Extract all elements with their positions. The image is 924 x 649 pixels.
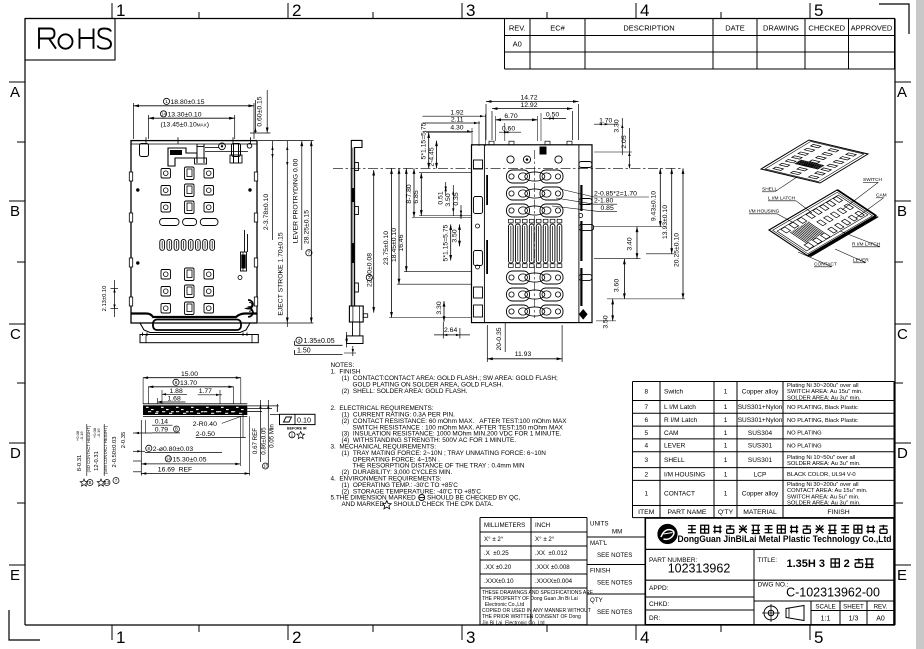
- dim 2-3.78: [272, 141, 274, 240]
- svg-text:.XXX ±0.008: .XXX ±0.008: [535, 564, 570, 571]
- units column: [587, 536, 645, 538]
- top view side notches: [129, 172, 132, 181]
- svg-text:5*1.15=5.75: 5*1.15=5.75: [443, 224, 450, 261]
- dim 6.85: [420, 173, 422, 216]
- bottom view outline: [472, 145, 593, 323]
- svg-text:(2) SHELL: SOLDER AREA: GOLD: (2) SHELL: SOLDER AREA: GOLD FLASH.: [342, 388, 468, 395]
- svg-text:9.43±0.10: 9.43±0.10: [651, 191, 658, 221]
- svg-text:12.92: 12.92: [520, 102, 537, 109]
- svg-text:DWG NO.:: DWG NO.:: [758, 582, 789, 589]
- zone numbers bottom: [111, 625, 113, 640]
- top view right latch bars: [233, 143, 235, 163]
- svg-text:SCALE: SCALE: [815, 604, 835, 611]
- top view legs and base flange: [142, 333, 144, 336]
- svg-text:5: 5: [814, 628, 823, 647]
- svg-text:2-0.85*2=1.70: 2-0.85*2=1.70: [594, 191, 637, 198]
- svg-text:0.67 REF: 0.67 REF: [252, 428, 259, 454]
- bottom view left rail features: [474, 160, 483, 169]
- dim 18.45: [398, 168, 400, 284]
- svg-text:D: D: [897, 445, 908, 462]
- dim 2-4.45: [436, 141, 438, 169]
- svg-text:2-4.45: 2-4.45: [428, 147, 435, 166]
- svg-text:SEE NOTES: SEE NOTES: [597, 552, 632, 559]
- svg-text:Plating Ni 10~50u" over all: Plating Ni 10~50u" over all: [787, 455, 855, 461]
- svg-text:20.25±0.10: 20.25±0.10: [673, 233, 680, 267]
- svg-text:1.50: 1.50: [297, 348, 311, 355]
- parts list table: [633, 381, 895, 383]
- svg-text:2-0.50±0.03: 2-0.50±0.03: [112, 437, 118, 468]
- top view circle feature: [219, 143, 226, 150]
- svg-text:EJECT STROKE 1.70±0.15: EJECT STROKE 1.70±0.15: [278, 232, 285, 316]
- dim 16.46: [405, 168, 407, 271]
- svg-text:3.50: 3.50: [602, 315, 609, 328]
- svg-text:2.13±0.10: 2.13±0.10: [102, 286, 108, 312]
- svg-text:4: 4: [640, 628, 649, 647]
- scale sheet rev: [810, 601, 812, 625]
- svg-text:13.30±0.10: 13.30±0.10: [168, 112, 202, 119]
- svg-text:SEE NOTES: SEE NOTES: [597, 580, 632, 587]
- svg-text:4: 4: [640, 1, 649, 20]
- iso assembly view: [769, 190, 878, 257]
- svg-text:REV.: REV.: [509, 24, 526, 33]
- svg-text:13.70: 13.70: [180, 380, 197, 387]
- svg-text:SOLDER AREA: Au 3u" min.: SOLDER AREA: Au 3u" min.: [787, 395, 861, 401]
- dim 5*1.15 lower: [450, 224, 452, 260]
- svg-text:1: 1: [724, 430, 728, 437]
- svg-text:LEVER: LEVER: [664, 443, 686, 450]
- dim 0.51 3.50 0.35: [445, 182, 447, 196]
- svg-text:8: 8: [644, 388, 648, 395]
- svg-text:3: 3: [298, 338, 301, 343]
- svg-text:3: 3: [466, 628, 475, 647]
- svg-text:CHKD:: CHKD:: [649, 601, 669, 608]
- centerline: [333, 167, 683, 169]
- svg-text:1: 1: [724, 388, 728, 395]
- svg-text:3: 3: [466, 1, 475, 20]
- top view eject hook bottom right: [247, 300, 253, 317]
- svg-text:Q'TY: Q'TY: [718, 509, 734, 516]
- dim 9.43: [659, 168, 661, 226]
- svg-text:MILLIMETERS: MILLIMETERS: [484, 522, 525, 529]
- svg-text:SUS301+Nylon: SUS301+Nylon: [738, 404, 783, 411]
- svg-text:3.50: 3.50: [445, 193, 452, 206]
- dim 14.72: [485, 104, 487, 140]
- bottom view center line vertical: [534, 150, 536, 318]
- dim 5*1.15=5.75 upper: [428, 132, 430, 168]
- dim 13.30: [147, 115, 149, 139]
- svg-text:5: 5: [644, 430, 648, 437]
- svg-text:PART NAME: PART NAME: [668, 509, 707, 516]
- svg-text:13.93±0.10: 13.93±0.10: [662, 205, 669, 239]
- appd chkd dr rows: [645, 596, 754, 598]
- svg-text:CONTACT: CONTACT: [664, 490, 695, 497]
- svg-text:7: 7: [644, 404, 648, 411]
- svg-text:NO PLATING, Black Plastic: NO PLATING, Black Plastic: [787, 405, 858, 411]
- svg-text:MATERIAL: MATERIAL: [743, 509, 777, 516]
- svg-text:L I/M Latch: L I/M Latch: [664, 404, 696, 411]
- dim 13.70: [173, 379, 179, 385]
- svg-text:A0: A0: [513, 40, 522, 49]
- svg-text:1:1: 1:1: [821, 616, 831, 623]
- svg-text:EC#: EC#: [550, 24, 565, 33]
- svg-text:23.75±0.10: 23.75±0.10: [383, 231, 390, 265]
- section view band: [143, 405, 247, 415]
- svg-text:FINISH: FINISH: [590, 568, 610, 575]
- svg-text:B: B: [175, 427, 178, 432]
- svg-text:2-ø0.80±0.03: 2-ø0.80±0.03: [153, 446, 194, 453]
- top view contact grid upper: [161, 169, 171, 179]
- svg-text:.XXXX±0.004: .XXXX±0.004: [535, 578, 573, 585]
- dim eject stroke: [286, 141, 288, 327]
- svg-text:3.60: 3.60: [614, 279, 621, 292]
- svg-text:1: 1: [724, 417, 728, 424]
- section view right tail: [247, 405, 278, 407]
- svg-text:SUS301: SUS301: [748, 457, 773, 464]
- svg-text:16.46: 16.46: [398, 234, 405, 251]
- dim 3.40: [636, 227, 638, 259]
- svg-text:15.00: 15.00: [181, 371, 198, 378]
- svg-text:2.11: 2.11: [451, 116, 464, 123]
- svg-text:NO PLATING, Black Plastic: NO PLATING, Black Plastic: [787, 418, 858, 424]
- top view eject lever right: [241, 252, 247, 271]
- dim 1.35 bottom: [296, 337, 302, 343]
- svg-text:2.64: 2.64: [444, 327, 457, 334]
- svg-text:1.35H 3: 1.35H 3: [787, 558, 826, 570]
- bottom view diamond mark: [579, 309, 588, 320]
- svg-text:1/3: 1/3: [849, 616, 859, 623]
- svg-text:A0: A0: [876, 616, 885, 623]
- top view latch pockets top corners: [140, 144, 149, 157]
- svg-text:SOLDER AREA: Au 3u" min.: SOLDER AREA: Au 3u" min.: [787, 500, 861, 506]
- projection symbol box: [754, 600, 894, 602]
- note symbol star: [382, 501, 391, 509]
- side view right bumps: [355, 163, 359, 171]
- svg-text:Plating Ni 30~200u" over all: Plating Ni 30~200u" over all: [787, 383, 859, 389]
- svg-text:2-3.78±0.10: 2-3.78±0.10: [263, 194, 270, 230]
- svg-text:13: 13: [105, 480, 110, 485]
- svg-text:1: 1: [724, 404, 728, 411]
- svg-text:Copper alloy: Copper alloy: [742, 490, 779, 497]
- dim 18.80: [133, 103, 135, 139]
- witness lines left: [412, 216, 472, 218]
- top view pin: [196, 144, 198, 163]
- company name chinese (pseudo glyphs): [688, 525, 696, 534]
- svg-text:REV.: REV.: [874, 604, 888, 611]
- svg-text:C: C: [897, 326, 908, 343]
- svg-text:11.93: 11.93: [515, 351, 532, 358]
- dim 20.25: [682, 168, 684, 299]
- svg-text:B: B: [89, 480, 92, 485]
- RoHS box: [25, 19, 115, 61]
- bottom view top circles: [507, 156, 514, 163]
- svg-text:1: 1: [165, 99, 168, 104]
- svg-text:14: 14: [166, 456, 172, 461]
- dim 13.93: [671, 168, 673, 253]
- svg-text:18.80±0.15: 18.80±0.15: [171, 99, 205, 106]
- svg-text:2: 2: [644, 471, 648, 478]
- svg-text:SHELL: SHELL: [664, 457, 685, 464]
- svg-text:8: 8: [175, 380, 178, 385]
- svg-text:DATE: DATE: [725, 24, 744, 33]
- svg-text:0.79: 0.79: [155, 426, 168, 433]
- svg-text:2: 2: [292, 1, 301, 20]
- svg-text:7: 7: [308, 251, 311, 256]
- svg-text:ITEM: ITEM: [638, 509, 655, 516]
- side view foot: [349, 306, 363, 322]
- svg-text:0.85: 0.85: [601, 205, 614, 212]
- svg-text:SWITCH AREA: Au 5u" min.: SWITCH AREA: Au 5u" min.: [787, 494, 860, 500]
- svg-text:0.50: 0.50: [546, 112, 559, 119]
- svg-text:SHOULD CHECK THE CPK DATA.: SHOULD CHECK THE CPK DATA.: [394, 501, 494, 508]
- revision table: [505, 18, 895, 20]
- svg-text:2: 2: [844, 558, 850, 570]
- svg-text:16.69 REF: 16.69 REF: [158, 466, 192, 473]
- zone letters right: [895, 81, 911, 83]
- svg-text:UNITS: UNITS: [590, 521, 609, 528]
- dim 2-d0.80: [146, 445, 152, 451]
- svg-text:2.05: 2.05: [621, 135, 628, 148]
- svg-text:15.30±0.05: 15.30±0.05: [173, 456, 207, 463]
- svg-text:18.45±0.10: 18.45±0.10: [391, 228, 398, 262]
- svg-text:CAM: CAM: [664, 430, 678, 437]
- svg-text:SUS301+Nylon: SUS301+Nylon: [738, 417, 783, 424]
- svg-text:.XX ±0.20: .XX ±0.20: [484, 564, 512, 571]
- top view outline: [131, 141, 257, 323]
- iso shell view: [761, 140, 868, 183]
- svg-text:0.14: 0.14: [155, 419, 168, 426]
- svg-text:0.10: 0.10: [297, 416, 311, 425]
- svg-text:LEVER PROTRYDING 0.00: LEVER PROTRYDING 0.00: [292, 159, 299, 244]
- svg-text:13: 13: [263, 464, 268, 469]
- svg-text:1.68: 1.68: [168, 395, 181, 402]
- svg-text:Jin Bi Lai Electronic Co.,Ltd: Jin Bi Lai Electronic Co.,Ltd: [482, 620, 545, 626]
- svg-text:8-0.31: 8-0.31: [77, 455, 83, 471]
- dim 0.60 vertical: [266, 90, 268, 133]
- svg-text:.X ±0.25: .X ±0.25: [484, 550, 509, 557]
- svg-text:-0.16: -0.16: [96, 428, 101, 438]
- svg-text:B: B: [897, 203, 907, 220]
- svg-text:SWITCH AREA: Au 15u" min.: SWITCH AREA: Au 15u" min.: [787, 389, 863, 395]
- svg-text:X° ± 2°: X° ± 2°: [484, 536, 504, 543]
- svg-text:CHECKED: CHECKED: [808, 24, 845, 33]
- svg-text:DR:: DR:: [649, 615, 660, 622]
- svg-text:SUS301: SUS301: [748, 443, 773, 450]
- top view pin row: [160, 240, 165, 251]
- svg-text:3.40: 3.40: [627, 237, 634, 250]
- bottom view right rail features: [579, 162, 592, 168]
- svg-text:INCH: INCH: [535, 522, 550, 529]
- svg-text:3.30: 3.30: [614, 119, 621, 132]
- bottom view upper contact ovals: [507, 170, 530, 183]
- corner trim mark top-right: [879, 4, 909, 34]
- top view tray bezel: [131, 314, 257, 318]
- svg-text:MAT'L: MAT'L: [590, 540, 608, 547]
- svg-text:SUS304: SUS304: [748, 430, 773, 437]
- note symbol circle-minus: [419, 495, 425, 501]
- svg-text:TITLE:: TITLE:: [758, 557, 778, 564]
- svg-text:14: 14: [161, 112, 167, 117]
- svg-text:1: 1: [644, 490, 648, 497]
- svg-text:102313962: 102313962: [668, 562, 731, 576]
- svg-text:A: A: [10, 84, 20, 101]
- svg-text:MM: MM: [612, 529, 622, 536]
- svg-text:SEE NOTES: SEE NOTES: [597, 609, 632, 616]
- svg-text:R I/M Latch: R I/M Latch: [664, 417, 698, 424]
- svg-text:2-R0.40: 2-R0.40: [193, 421, 217, 428]
- top view contact grid lower: [161, 270, 171, 280]
- svg-text:SOLDER AREA: Au 3u" min.: SOLDER AREA: Au 3u" min.: [787, 461, 861, 467]
- svg-text:3: 3: [644, 457, 648, 464]
- svg-text:1: 1: [724, 443, 728, 450]
- svg-text:6.70: 6.70: [504, 113, 517, 120]
- svg-text:1.77: 1.77: [199, 388, 212, 395]
- svg-text:APPROVED: APPROVED: [851, 24, 893, 33]
- side view body: [351, 140, 362, 306]
- svg-text:D: D: [10, 445, 21, 462]
- svg-text:2-1.80: 2-1.80: [594, 198, 613, 205]
- svg-text:0.05 Min: 0.05 Min: [269, 424, 276, 448]
- svg-text:0.60±0.15: 0.60±0.15: [257, 96, 264, 126]
- dim 8-7.80: [413, 168, 415, 217]
- svg-text:C-102313962-00: C-102313962-00: [786, 586, 880, 600]
- dim 22.40: [373, 170, 375, 313]
- svg-text:(13.45±0.10MAX): (13.45±0.10MAX): [161, 122, 209, 129]
- svg-text:Switch: Switch: [664, 388, 684, 395]
- svg-text:I/M HOUSING: I/M HOUSING: [664, 471, 705, 478]
- dim 3.50 mid: [459, 224, 461, 246]
- svg-text:8: 8: [148, 446, 151, 451]
- svg-text:4.30: 4.30: [450, 125, 463, 132]
- svg-text:FINISH: FINISH: [827, 509, 849, 516]
- svg-text:0.60: 0.60: [502, 126, 515, 133]
- zone numbers top: [111, 3, 113, 19]
- svg-text:C: C: [10, 326, 21, 343]
- svg-text:0.86±0.05: 0.86±0.05: [260, 427, 267, 455]
- side view base plate: [347, 336, 363, 344]
- ext lines top center: [495, 116, 497, 141]
- svg-text:3.30: 3.30: [436, 301, 443, 314]
- dim 12.92: [491, 111, 493, 140]
- svg-text:BLACK COLOR, UL94 V-0: BLACK COLOR, UL94 V-0: [787, 472, 856, 478]
- svg-text:LCP: LCP: [754, 471, 767, 478]
- svg-text:Plating Ni 30~200u" over all: Plating Ni 30~200u" over all: [787, 482, 859, 488]
- svg-text:22.40±0.08: 22.40±0.08: [367, 253, 374, 287]
- top view top edge ticks: [145, 137, 147, 144]
- svg-text:28.25±0.15: 28.25±0.15: [304, 210, 311, 244]
- bottom view lower contact ovals: [507, 271, 530, 284]
- dim 3.30 left: [443, 301, 445, 322]
- company logo: [658, 525, 677, 544]
- dim 15.30: [165, 456, 171, 462]
- svg-text:.XX ±0.012: .XX ±0.012: [535, 550, 568, 557]
- svg-text:QTY: QTY: [590, 597, 603, 604]
- svg-text:AND MARKED: AND MARKED: [342, 501, 385, 508]
- svg-text:1: 1: [724, 457, 728, 464]
- left dim lines: [133, 432, 152, 434]
- svg-text:APPD:: APPD:: [649, 585, 669, 592]
- tolerance table: [480, 517, 587, 519]
- dim 3.50 right: [612, 299, 614, 321]
- svg-text:BEFORE IR: BEFORE IR: [287, 426, 307, 430]
- svg-text:3.50: 3.50: [451, 229, 458, 242]
- svg-text:SHEET: SHEET: [843, 604, 864, 611]
- svg-text:E: E: [897, 567, 907, 584]
- section view right verticals: [260, 400, 262, 462]
- svg-text:2: 2: [368, 275, 371, 280]
- svg-text:Copper alloy: Copper alloy: [742, 388, 779, 395]
- svg-text:CONTACT AREA: Au 15u" min.: CONTACT AREA: Au 15u" min.: [787, 488, 868, 494]
- dim 23.75: [391, 168, 393, 317]
- svg-text:-0.16: -0.16: [79, 431, 84, 441]
- corner trim mark bottom-left: [9, 610, 40, 640]
- svg-text:NO PLATING: NO PLATING: [787, 444, 822, 450]
- svg-text:1.35±0.05: 1.35±0.05: [304, 338, 335, 345]
- svg-text:2-0.50: 2-0.50: [196, 431, 215, 438]
- dim 28.25: [258, 140, 314, 142]
- title block: [645, 518, 894, 625]
- svg-text:14.72: 14.72: [520, 95, 537, 102]
- bottom view rail dark strips: [580, 185, 582, 211]
- dim lever protryding: [301, 141, 303, 250]
- svg-text:E: E: [10, 567, 20, 584]
- zone letters left: [9, 81, 25, 83]
- bottom view top edge bumps: [489, 141, 494, 145]
- svg-text:DRAWING: DRAWING: [763, 24, 799, 33]
- svg-text:1.88: 1.88: [170, 388, 183, 395]
- svg-text:12-0.31: 12-0.31: [94, 451, 100, 471]
- left label symbols: [80, 479, 88, 486]
- svg-text:A: A: [897, 84, 907, 101]
- svg-text:4: 4: [644, 443, 648, 450]
- svg-text:2: 2: [292, 628, 301, 647]
- sheet frame: [25, 18, 895, 20]
- svg-text:DESCRIPTION: DESCRIPTION: [623, 24, 674, 33]
- svg-text:6: 6: [644, 417, 648, 424]
- svg-text:2-0.35: 2-0.35: [121, 432, 127, 448]
- top view slot row: [160, 219, 179, 226]
- svg-text:1: 1: [116, 628, 125, 647]
- svg-text:.XXX±0.10: .XXX±0.10: [484, 578, 514, 585]
- page edge shadow: [916, 0, 924, 649]
- dim 3.60: [623, 259, 625, 299]
- svg-text:1: 1: [724, 490, 728, 497]
- svg-text:NO PLATING: NO PLATING: [787, 431, 822, 437]
- svg-text:X° ± 2°: X° ± 2°: [535, 536, 555, 543]
- svg-text:B: B: [10, 203, 20, 220]
- svg-text:20-0.35: 20-0.35: [496, 327, 503, 350]
- svg-text:DongGuan JinBiLai Metal Plasti: DongGuan JinBiLai Metal Plastic Technolo…: [678, 534, 892, 544]
- svg-text:1: 1: [116, 1, 125, 20]
- bottom view spring contacts: [509, 224, 514, 263]
- svg-text:6.85: 6.85: [413, 190, 420, 203]
- svg-text:5: 5: [814, 1, 823, 20]
- svg-text:5*1.15=5.75: 5*1.15=5.75: [421, 122, 428, 159]
- top view lever detail: [168, 148, 197, 166]
- svg-text:1: 1: [724, 471, 728, 478]
- before ir flag: [280, 414, 316, 424]
- svg-text:8-7.80: 8-7.80: [406, 184, 413, 203]
- svg-text:0.51: 0.51: [438, 191, 445, 204]
